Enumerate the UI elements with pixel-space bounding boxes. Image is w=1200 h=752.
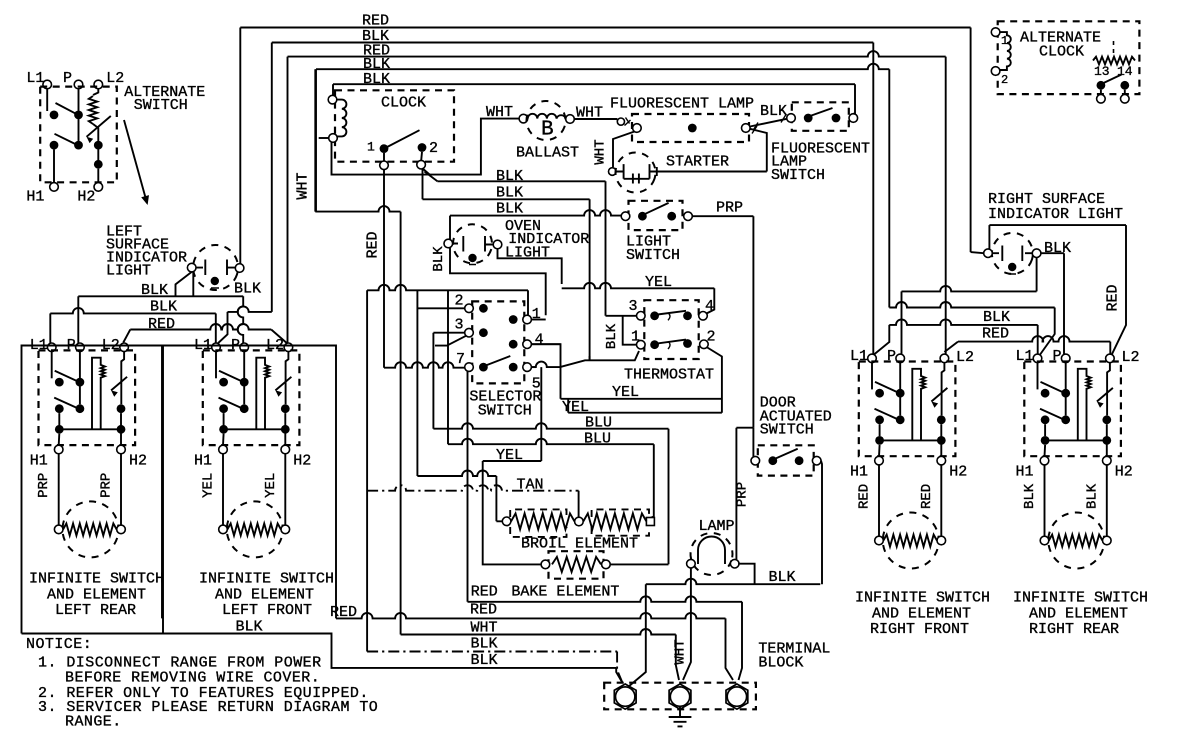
svg-text:1: 1 <box>1001 34 1008 48</box>
svg-text:AND ELEMENT: AND ELEMENT <box>47 587 146 604</box>
svg-text:THERMOSTAT: THERMOSTAT <box>624 367 714 384</box>
svg-text:BLK: BLK <box>496 185 523 202</box>
svg-text:SWITCH: SWITCH <box>626 247 680 264</box>
svg-text:BLK: BLK <box>236 619 263 636</box>
svg-text:BLK: BLK <box>760 103 787 120</box>
svg-text:H2: H2 <box>129 453 147 470</box>
svg-text:WHT: WHT <box>673 639 689 664</box>
svg-text:P: P <box>887 348 896 365</box>
svg-text:BLK: BLK <box>150 299 177 316</box>
svg-text:INFINITE SWITCH: INFINITE SWITCH <box>1013 590 1148 607</box>
svg-text:H2: H2 <box>293 453 311 470</box>
svg-text:P: P <box>63 70 72 87</box>
svg-text:SWITCH: SWITCH <box>478 403 532 420</box>
svg-text:RED: RED <box>362 13 389 30</box>
svg-text:RED: RED <box>857 484 873 509</box>
svg-text:AND ELEMENT: AND ELEMENT <box>215 587 314 604</box>
svg-text:BLK: BLK <box>769 569 796 586</box>
svg-text:SWITCH: SWITCH <box>134 97 188 114</box>
svg-text:INFINITE SWITCH: INFINITE SWITCH <box>29 571 164 588</box>
svg-text:TAN: TAN <box>517 477 544 494</box>
svg-text:BLK: BLK <box>604 323 620 349</box>
svg-text:BEFORE REMOVING WIRE COVER.: BEFORE REMOVING WIRE COVER. <box>65 670 320 687</box>
svg-text:2: 2 <box>455 293 464 310</box>
svg-text:4: 4 <box>535 332 544 349</box>
svg-text:AND ELEMENT: AND ELEMENT <box>1029 606 1128 623</box>
svg-text:BLU: BLU <box>585 415 612 432</box>
svg-text:LAMP: LAMP <box>699 518 735 535</box>
svg-text:1: 1 <box>367 140 375 155</box>
svg-text:RED: RED <box>471 584 498 601</box>
svg-text:INDICATOR LIGHT: INDICATOR LIGHT <box>988 206 1123 223</box>
svg-text:AND ELEMENT: AND ELEMENT <box>872 606 971 623</box>
svg-text:B: B <box>541 119 554 142</box>
svg-text:P: P <box>1053 348 1062 365</box>
svg-text:RANGE.: RANGE. <box>65 714 122 731</box>
svg-text:BLK: BLK <box>431 246 447 272</box>
svg-text:CLOCK: CLOCK <box>381 95 426 112</box>
svg-text:RED: RED <box>982 326 1009 343</box>
svg-text:LEFT REAR: LEFT REAR <box>55 602 136 619</box>
svg-text:L2: L2 <box>106 70 124 87</box>
svg-text:RED: RED <box>470 602 497 619</box>
svg-text:L1: L1 <box>1016 348 1034 365</box>
svg-text:SWITCH: SWITCH <box>771 167 825 184</box>
svg-text:YEL: YEL <box>562 399 589 416</box>
svg-text:PRP: PRP <box>716 200 743 217</box>
svg-text:H1: H1 <box>850 464 868 481</box>
svg-text:L1: L1 <box>850 348 868 365</box>
svg-text:2: 2 <box>429 140 438 157</box>
svg-text:3: 3 <box>629 298 638 315</box>
svg-text:BLK: BLK <box>471 652 498 669</box>
svg-text:BAKE ELEMENT: BAKE ELEMENT <box>511 584 619 601</box>
svg-text:SWITCH: SWITCH <box>760 422 814 439</box>
svg-text:H1: H1 <box>194 453 212 470</box>
svg-text:L2: L2 <box>956 349 974 366</box>
svg-text:14: 14 <box>1117 64 1133 79</box>
svg-text:BLU: BLU <box>584 431 611 448</box>
svg-text:BLK: BLK <box>1085 483 1101 509</box>
svg-text:BLK: BLK <box>983 309 1010 326</box>
svg-text:BLK: BLK <box>1044 240 1071 257</box>
svg-text:BLOCK: BLOCK <box>758 655 803 672</box>
svg-text:RED: RED <box>1105 284 1122 311</box>
svg-text:H2: H2 <box>77 189 95 206</box>
svg-text:YEL: YEL <box>201 473 217 498</box>
svg-text:WHT: WHT <box>471 620 498 637</box>
svg-text:RED: RED <box>919 484 935 509</box>
svg-text:BLK: BLK <box>496 168 523 185</box>
svg-text:7: 7 <box>456 351 465 368</box>
svg-text:BLK: BLK <box>363 71 390 88</box>
svg-text:13: 13 <box>1094 64 1110 79</box>
svg-text:RIGHT FRONT: RIGHT FRONT <box>870 621 969 638</box>
svg-text:YEL: YEL <box>496 447 523 464</box>
svg-text:LIGHT: LIGHT <box>106 263 151 280</box>
svg-text:STARTER: STARTER <box>666 154 729 171</box>
svg-text:H1: H1 <box>1016 464 1034 481</box>
svg-text:YEL: YEL <box>263 473 279 498</box>
svg-text:3: 3 <box>455 317 464 334</box>
svg-text:WHT: WHT <box>295 172 312 199</box>
svg-text:PRP: PRP <box>36 473 52 498</box>
svg-text:L2: L2 <box>1122 349 1140 366</box>
svg-text:2: 2 <box>707 329 716 346</box>
svg-text:1: 1 <box>631 329 640 346</box>
svg-text:INFINITE SWITCH: INFINITE SWITCH <box>855 590 990 607</box>
svg-text:4: 4 <box>705 298 714 315</box>
svg-text:1: 1 <box>532 306 541 323</box>
svg-text:YEL: YEL <box>612 384 639 401</box>
svg-text:PRP: PRP <box>99 473 115 498</box>
svg-text:L1: L1 <box>26 70 44 87</box>
svg-text:NOTICE:: NOTICE: <box>26 636 92 653</box>
svg-text:CLOCK: CLOCK <box>1039 44 1084 61</box>
svg-text:H1: H1 <box>30 453 48 470</box>
svg-text:RIGHT REAR: RIGHT REAR <box>1029 621 1119 638</box>
svg-text:INFINITE SWITCH: INFINITE SWITCH <box>199 571 334 588</box>
svg-text:RED: RED <box>365 231 382 258</box>
svg-text:H2: H2 <box>949 464 967 481</box>
svg-text:RED: RED <box>330 604 357 621</box>
svg-text:H1: H1 <box>26 189 44 206</box>
svg-text:YEL: YEL <box>645 274 672 291</box>
svg-text:RED: RED <box>148 316 175 333</box>
svg-text:BLK: BLK <box>234 281 261 298</box>
svg-text:BLK: BLK <box>471 636 498 653</box>
svg-text:H2: H2 <box>1115 464 1133 481</box>
svg-text:BALLAST: BALLAST <box>516 145 579 162</box>
svg-text:FLUORESCENT LAMP: FLUORESCENT LAMP <box>610 96 754 113</box>
svg-text:BROIL ELEMENT: BROIL ELEMENT <box>521 536 638 553</box>
svg-text:LEFT FRONT: LEFT FRONT <box>222 602 312 619</box>
svg-text:PRP: PRP <box>735 482 751 507</box>
svg-text:WHT: WHT <box>486 104 513 121</box>
svg-text:WHT: WHT <box>593 139 609 164</box>
svg-text:2: 2 <box>1001 73 1008 87</box>
svg-text:BLK: BLK <box>1022 483 1038 509</box>
